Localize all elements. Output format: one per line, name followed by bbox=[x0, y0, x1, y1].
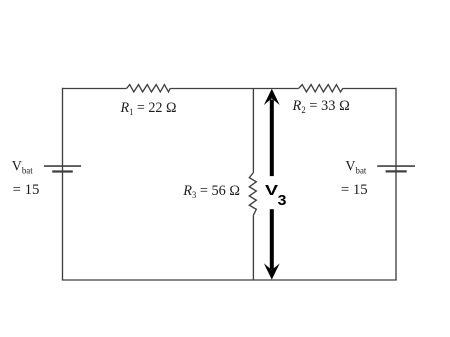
voltage arrow V3 (double-headed, across middle branch) bbox=[264, 89, 280, 280]
svg-text:R1 = 22 Ω: R1 = 22 Ω bbox=[120, 100, 177, 117]
wire middle branch upper (node B to R3) bbox=[252, 89, 254, 173]
resistor R1 bbox=[127, 85, 171, 92]
wire bottom bbox=[62, 279, 397, 281]
wire middle branch lower (R3 to bottom node) bbox=[252, 215, 254, 280]
wire top-left segment (left battery to R1) bbox=[63, 88, 127, 90]
svg-text:= 15: = 15 bbox=[13, 182, 40, 198]
battery V_bat (right): long positive plate bbox=[377, 165, 415, 167]
battery V_bat (left): short negative plate bbox=[52, 170, 73, 172]
wire right side (through battery) bbox=[395, 88, 397, 280]
battery V_bat (left): long positive plate bbox=[44, 165, 81, 167]
wire left side (through battery) bbox=[62, 88, 64, 280]
svg-text:3: 3 bbox=[278, 193, 287, 209]
svg-text:Vbat: Vbat bbox=[12, 159, 33, 177]
svg-text:= 15: = 15 bbox=[341, 182, 368, 198]
battery V_bat (right): short negative plate bbox=[386, 170, 407, 172]
svg-text:R3 = 56 Ω: R3 = 56 Ω bbox=[182, 183, 240, 200]
svg-text:Vbat: Vbat bbox=[345, 159, 366, 177]
wire top-middle segment (R1 to node B and on to R2) bbox=[170, 88, 298, 90]
resistor R2 bbox=[299, 85, 343, 92]
wire top-right segment (R2 to right battery) bbox=[343, 88, 396, 90]
resistor R3 bbox=[249, 173, 256, 216]
svg-text:R2 = 33 Ω: R2 = 33 Ω bbox=[292, 98, 350, 115]
svg-text:V: V bbox=[265, 183, 278, 199]
